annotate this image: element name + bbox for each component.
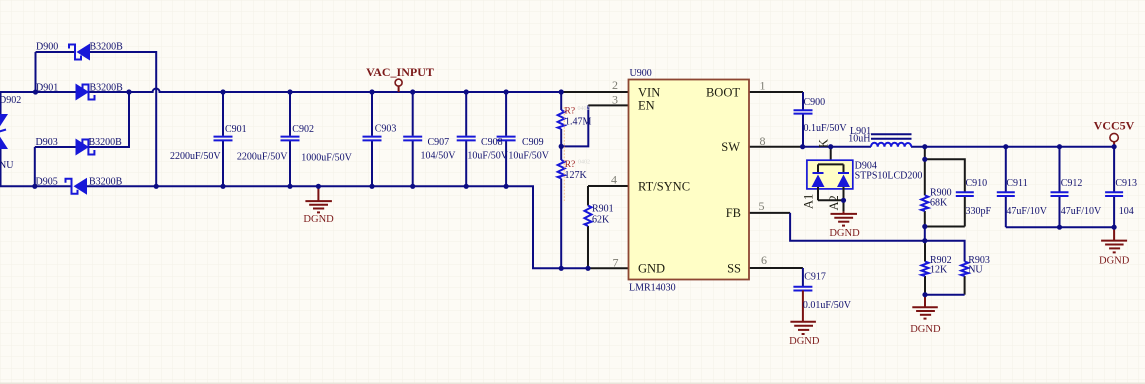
- svg-text:VIN: VIN: [638, 85, 660, 99]
- value STPS10LCD200: [855, 171, 923, 182]
- wire SW rail to inductor: [803, 146, 871, 148]
- svg-text:D903: D903: [36, 137, 58, 148]
- designator C901: [225, 124, 247, 135]
- pin number 3: [612, 93, 618, 107]
- designator C910: [966, 178, 988, 189]
- capacitor C913: [1105, 192, 1123, 196]
- pin number 5: [759, 199, 765, 213]
- svg-text:47uF/10V: 47uF/10V: [1061, 206, 1102, 217]
- wire D903 anode vertical: [34, 147, 36, 186]
- designator D905: [36, 177, 58, 188]
- pin number 1: [760, 79, 766, 93]
- wire negative rail to GND corner: [87, 186, 588, 268]
- wire R902 bottom lead: [924, 276, 926, 295]
- svg-text:2200uF/50V: 2200uF/50V: [237, 152, 288, 163]
- capacitor C900: [794, 110, 813, 113]
- wire AC1 input to D901 anode: [0, 91, 76, 93]
- label DGND under C913: [1099, 256, 1130, 267]
- svg-text:0402: 0402: [578, 106, 590, 112]
- value of C902: [237, 152, 288, 163]
- svg-text:C900: C900: [804, 97, 826, 108]
- svg-text:B3200B: B3200B: [90, 42, 124, 53]
- value 330pF: [966, 206, 992, 217]
- designator U900: [630, 68, 652, 79]
- capacitor C911: [997, 192, 1015, 196]
- wire R900 junction to FB line: [924, 227, 926, 241]
- label DGND under D904: [829, 228, 860, 239]
- wire D904 cathode lead: [830, 147, 832, 165]
- svg-text:C912: C912: [1061, 178, 1083, 189]
- svg-text:3: 3: [612, 93, 618, 107]
- designator C911: [1006, 178, 1027, 189]
- svg-text:SW: SW: [721, 140, 740, 154]
- value of C908: [467, 151, 508, 162]
- designator L901: [850, 126, 871, 137]
- wire R901 bottom lead: [587, 226, 589, 268]
- diode D904 STPS10LCD200: [807, 160, 853, 211]
- designator R? lower: [565, 160, 576, 170]
- value B3200B of D905: [89, 177, 123, 188]
- svg-text:GND: GND: [638, 261, 665, 275]
- svg-text:127K: 127K: [565, 170, 588, 181]
- svg-text:U900: U900: [630, 68, 652, 79]
- svg-text:B3200B: B3200B: [89, 137, 123, 148]
- IC U900 body: [629, 80, 750, 280]
- designator C912: [1061, 178, 1083, 189]
- svg-text:10uH: 10uH: [848, 133, 870, 144]
- wire SS pin stub: [749, 267, 803, 269]
- value 12K: [930, 264, 948, 275]
- wire R900-C910 tie: [925, 226, 965, 228]
- wire RT/SYNC pin stub: [588, 185, 629, 187]
- capacitor C912: [1051, 192, 1069, 196]
- svg-text:VCC5V: VCC5V: [1094, 118, 1135, 132]
- diode D900: [69, 44, 90, 61]
- wire R? divider lower lead to GND line: [560, 179, 562, 269]
- designator D900: [36, 42, 58, 53]
- svg-text:FB: FB: [726, 206, 741, 220]
- svg-text:1000uF/50V: 1000uF/50V: [301, 153, 352, 164]
- svg-text:VAC_INPUT: VAC_INPUT: [366, 65, 434, 79]
- wire D903 anode lead: [35, 146, 76, 148]
- value of C917: [803, 300, 852, 311]
- designator C908: [481, 137, 503, 148]
- svg-text:C907: C907: [428, 137, 450, 148]
- pin label A2 of D904: [827, 195, 841, 210]
- label VAC_INPUT: [366, 65, 434, 79]
- wire FB net to divider: [790, 213, 965, 262]
- svg-text:330pF: 330pF: [966, 206, 992, 217]
- resistor R? lower 127K: [558, 160, 565, 179]
- designator C907: [428, 137, 450, 148]
- capacitor C902: [281, 137, 300, 141]
- pin number 4: [611, 173, 617, 187]
- svg-text:10uF/50V: 10uF/50V: [508, 151, 549, 162]
- wire SW pin stub: [749, 146, 803, 148]
- wire EN pin stub: [588, 104, 628, 106]
- value 1.47M: [565, 117, 592, 128]
- wire C900 bottom lead: [802, 114, 804, 147]
- svg-text:R?: R?: [565, 107, 576, 117]
- wire capacitor bank leads C903: [371, 92, 373, 186]
- svg-text:6: 6: [761, 253, 767, 267]
- svg-text:7: 7: [613, 256, 619, 270]
- ground DGND under R902: [912, 295, 938, 319]
- svg-text:D905: D905: [36, 177, 58, 188]
- capacitor C910: [956, 192, 974, 196]
- svg-text:4: 4: [611, 173, 617, 187]
- capacitor C903: [363, 137, 382, 141]
- svg-text:R?: R?: [565, 160, 576, 170]
- value 68K: [930, 198, 948, 209]
- svg-text:A1: A1: [802, 194, 816, 209]
- wire C910 bottom lead: [964, 195, 966, 227]
- svg-text:NU: NU: [0, 160, 14, 171]
- designator D904: [855, 161, 877, 172]
- svg-text:DGND: DGND: [789, 336, 820, 347]
- value B3200B of D901: [90, 83, 124, 94]
- diode D905: [66, 178, 88, 195]
- svg-text:RT/SYNC: RT/SYNC: [638, 179, 690, 193]
- label VCC5V: [1094, 118, 1135, 132]
- pin name SW: [721, 140, 740, 154]
- svg-text:C901: C901: [225, 124, 247, 135]
- svg-text:1: 1: [760, 79, 766, 93]
- wire R900 bottom lead: [924, 211, 926, 227]
- svg-text:B3200B: B3200B: [89, 177, 123, 188]
- wire positive rail D901 cathode to VIN junction (with hop at x=156): [89, 89, 562, 93]
- wire R? divider vertical upper lead: [560, 92, 562, 110]
- svg-text:DGND: DGND: [910, 324, 941, 335]
- value of C901: [170, 151, 221, 162]
- designator D903: [36, 137, 58, 148]
- svg-text:DGND: DGND: [829, 228, 860, 239]
- diode D901: [76, 84, 95, 101]
- designator C902: [292, 124, 314, 135]
- svg-text:C917: C917: [804, 272, 826, 283]
- resistor R? upper 1.47M: [558, 110, 565, 129]
- wire capacitor bank leads C907: [412, 92, 414, 186]
- svg-text:D901: D901: [36, 83, 58, 94]
- designator C917: [804, 272, 826, 283]
- wire capacitor bank leads C902: [289, 92, 291, 186]
- svg-text:D900: D900: [36, 42, 58, 53]
- svg-text:DGND: DGND: [303, 214, 334, 225]
- svg-text:EN: EN: [638, 99, 655, 113]
- svg-text:1.47M: 1.47M: [565, 117, 592, 128]
- pin name FB: [726, 206, 741, 220]
- svg-text:BOOT: BOOT: [706, 85, 740, 99]
- wire D900 cathode lead: [36, 51, 75, 53]
- value of C903: [301, 153, 352, 164]
- ghost parameter of R? upper: [578, 106, 590, 112]
- value of C911: [1006, 206, 1047, 217]
- diode D902 (clipped at sheet edge): [0, 92, 8, 186]
- error squiggle on R? dividers: [563, 107, 565, 201]
- wire SW rail after inductor to VCC5V corner: [911, 146, 1114, 148]
- designator D901: [36, 83, 58, 94]
- wire C911 bottom lead: [1005, 196, 1007, 227]
- label DGND under R902: [910, 324, 941, 335]
- svg-text:0.1uF/50V: 0.1uF/50V: [804, 123, 848, 134]
- pin name EN: [638, 99, 655, 113]
- ghost parameter of R? lower: [578, 159, 590, 165]
- wire R900 top lead: [924, 147, 926, 196]
- value LMR14030: [629, 282, 676, 293]
- svg-text:47uF/10V: 47uF/10V: [1006, 206, 1047, 217]
- value B3200B of D900: [90, 42, 124, 53]
- svg-text:D902: D902: [0, 95, 21, 106]
- wire capacitor bank leads C908: [465, 92, 467, 186]
- designator R900: [930, 188, 952, 199]
- label DGND under C917: [789, 336, 820, 347]
- label DGND under C902: [303, 214, 334, 225]
- svg-text:62K: 62K: [592, 215, 610, 226]
- svg-text:NU: NU: [968, 264, 983, 275]
- value of C909: [508, 151, 549, 162]
- svg-text:C910: C910: [966, 178, 988, 189]
- wire capacitor bank leads C901: [222, 92, 224, 186]
- svg-text:DGND: DGND: [1099, 256, 1130, 267]
- designator R902: [930, 255, 952, 266]
- svg-text:A2: A2: [827, 195, 841, 210]
- capacitor C909: [497, 137, 516, 141]
- svg-text:R901: R901: [592, 203, 614, 214]
- capacitor C907: [403, 137, 422, 141]
- pin number 8: [760, 134, 766, 148]
- designator D902 (clipped): [0, 95, 21, 106]
- port VAC_INPUT: [395, 79, 402, 92]
- value 10uH: [848, 133, 870, 144]
- wire R? divider middle leads: [560, 129, 562, 160]
- wire D900 branch vertical: [35, 52, 37, 92]
- resistor R902: [922, 262, 929, 277]
- svg-text:SS: SS: [727, 261, 741, 275]
- value B3200B of D903: [89, 137, 123, 148]
- capacitor C917: [793, 287, 812, 291]
- designator C903: [375, 123, 397, 134]
- resistor R900: [921, 195, 928, 211]
- wire C912 top lead: [1059, 147, 1061, 192]
- wire C913 top lead: [1113, 147, 1115, 192]
- wire R903 bottom lead: [964, 276, 966, 295]
- pin label A1 of D904: [802, 194, 816, 209]
- designator R903: [968, 255, 990, 266]
- wire C910 branch: [925, 159, 965, 191]
- diode D903: [76, 139, 95, 156]
- ground DGND under C913: [1101, 227, 1127, 252]
- svg-text:0402: 0402: [578, 159, 590, 165]
- pin name BOOT: [706, 85, 740, 99]
- wire output caps ground rail: [1006, 226, 1114, 228]
- pin number 6: [761, 253, 767, 267]
- pin name SS: [727, 261, 741, 275]
- svg-text:STPS10LCD200: STPS10LCD200: [855, 171, 923, 182]
- svg-text:104: 104: [1119, 206, 1134, 217]
- wire C912 bottom lead: [1059, 196, 1061, 227]
- value 104: [1119, 206, 1134, 217]
- value of C900: [804, 123, 848, 134]
- wire R902-R903 ground tie: [925, 294, 965, 296]
- svg-text:C913: C913: [1115, 178, 1137, 189]
- svg-text:C909: C909: [522, 137, 544, 148]
- svg-text:2200uF/50V: 2200uF/50V: [170, 151, 221, 162]
- pin label K of D904: [817, 139, 831, 148]
- pin name RT/SYNC: [638, 179, 690, 193]
- designator C900: [804, 97, 826, 108]
- resistor R901: [585, 206, 592, 227]
- wire C917 top lead: [802, 268, 804, 287]
- svg-text:C903: C903: [375, 123, 397, 134]
- junction node dots: [32, 89, 1117, 297]
- svg-text:LMR14030: LMR14030: [629, 282, 676, 293]
- ground DGND under C917: [790, 291, 816, 335]
- wire R902 top lead: [924, 241, 926, 262]
- svg-text:10uF/50V: 10uF/50V: [467, 151, 508, 162]
- wire FB pin stub: [749, 212, 790, 214]
- designator R901: [592, 203, 614, 214]
- capacitor C901: [214, 137, 233, 141]
- wire C913 bottom lead: [1113, 196, 1115, 227]
- pin number 2: [612, 78, 618, 92]
- ground DGND under C902: [305, 186, 332, 212]
- svg-text:0.01uF/50V: 0.01uF/50V: [803, 300, 852, 311]
- svg-text:C908: C908: [481, 137, 503, 148]
- value of C912: [1061, 206, 1102, 217]
- wire AC2 / negative rail: [0, 185, 72, 187]
- wire D903 cathode to positive rail: [88, 92, 129, 147]
- designator C913: [1115, 178, 1137, 189]
- wire D900 anode to negative rail: [90, 52, 156, 186]
- svg-text:B3200B: B3200B: [90, 83, 124, 94]
- wire capacitor bank leads C909: [505, 92, 507, 186]
- pin name VIN: [638, 85, 660, 99]
- value NU of R903: [968, 264, 983, 275]
- pin name GND: [638, 261, 665, 275]
- ground DGND under D904: [831, 212, 858, 226]
- inductor L901: [871, 134, 912, 147]
- svg-text:5: 5: [759, 199, 765, 213]
- svg-text:2: 2: [612, 78, 618, 92]
- designator C909: [522, 137, 544, 148]
- wire VIN pin stub: [563, 91, 629, 93]
- wire EN divider tap: [561, 105, 588, 146]
- svg-text:8: 8: [760, 134, 766, 148]
- designator R? upper: [565, 107, 576, 117]
- wire R901 top lead: [587, 186, 589, 206]
- capacitor C908: [457, 137, 476, 141]
- port VCC5V: [1110, 133, 1118, 146]
- svg-text:C911: C911: [1006, 178, 1027, 189]
- wire C900 top lead: [802, 92, 804, 110]
- value of C907: [421, 151, 457, 162]
- resistor R903: [961, 262, 968, 277]
- value 127K: [565, 170, 588, 181]
- wire GND pin stub: [588, 267, 629, 269]
- svg-text:68K: 68K: [930, 198, 948, 209]
- wire BOOT pin to C900: [749, 91, 803, 93]
- value NU of D902: [0, 160, 14, 171]
- pin number 7: [613, 256, 619, 270]
- value 62K: [592, 215, 610, 226]
- wire C911 top lead: [1005, 147, 1007, 192]
- svg-text:104/50V: 104/50V: [421, 151, 457, 162]
- svg-text:C902: C902: [292, 124, 314, 135]
- svg-text:12K: 12K: [930, 264, 948, 275]
